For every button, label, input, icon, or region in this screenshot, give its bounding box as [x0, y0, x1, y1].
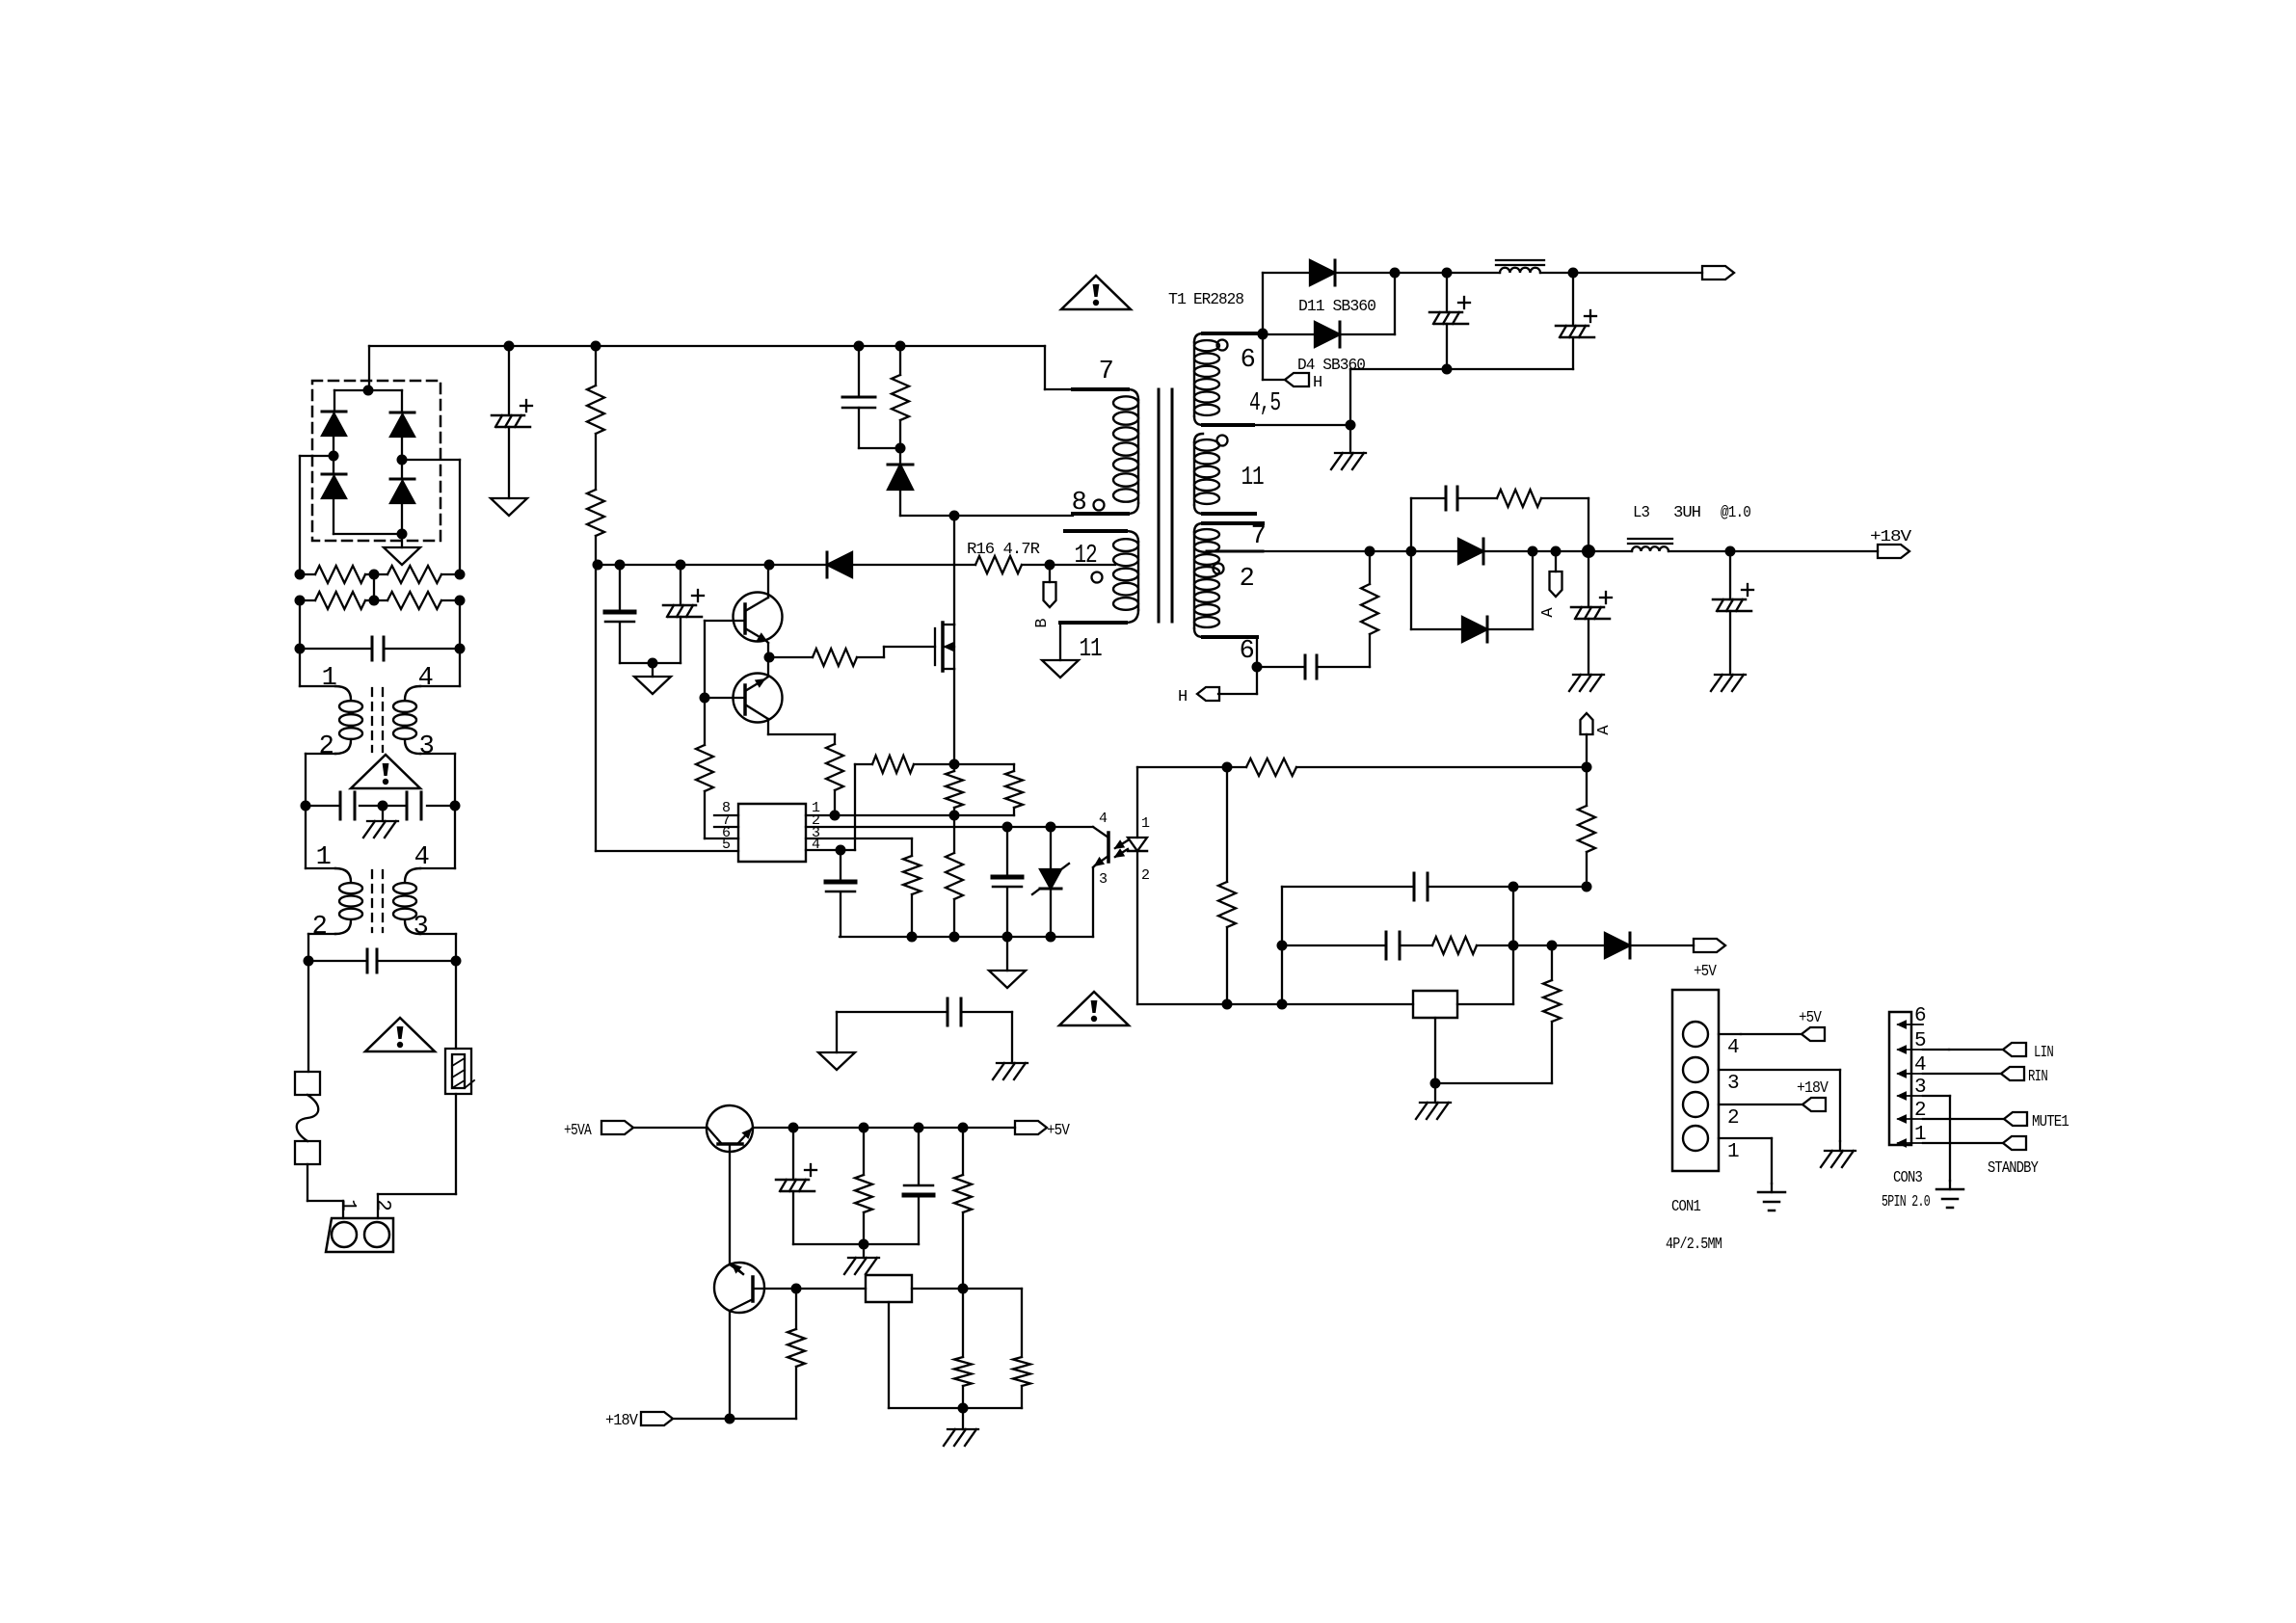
svg-text:11: 11 — [1080, 635, 1102, 664]
svg-text:+18V: +18V — [1870, 528, 1912, 546]
svg-text:H: H — [1178, 688, 1187, 706]
svg-text:1: 1 — [1141, 815, 1150, 832]
svg-text:2: 2 — [371, 1199, 393, 1211]
svg-text:4: 4 — [418, 664, 433, 693]
svg-text:STANDBY: STANDBY — [1988, 1159, 2039, 1178]
svg-text:4,5: 4,5 — [1249, 389, 1280, 418]
svg-text:ER2828: ER2828 — [1193, 291, 1244, 309]
svg-text:1: 1 — [316, 843, 331, 872]
svg-text:6: 6 — [1240, 637, 1254, 666]
svg-text:3: 3 — [1099, 871, 1108, 888]
svg-text:@1.0: @1.0 — [1721, 504, 1751, 522]
svg-text:1: 1 — [322, 664, 336, 693]
svg-text:2: 2 — [1141, 867, 1149, 884]
svg-text:MUTE1: MUTE1 — [2032, 1113, 2069, 1131]
svg-text:11: 11 — [1241, 464, 1264, 492]
svg-text:+5VA: +5VA — [564, 1122, 592, 1140]
svg-text:12: 12 — [1075, 542, 1097, 571]
svg-text:CON3: CON3 — [1893, 1169, 1923, 1187]
svg-text:D11 SB360: D11 SB360 — [1298, 298, 1376, 316]
svg-text:CON1: CON1 — [1671, 1198, 1701, 1216]
svg-text:B: B — [1033, 619, 1052, 628]
svg-text:4P/2.5MM: 4P/2.5MM — [1666, 1236, 1722, 1254]
svg-text:+18V: +18V — [605, 1412, 639, 1430]
svg-text:3: 3 — [1727, 1073, 1739, 1095]
svg-text:3UH: 3UH — [1673, 504, 1700, 522]
svg-text:+5V: +5V — [1047, 1122, 1070, 1140]
svg-text:L3: L3 — [1633, 504, 1650, 522]
svg-text:T1: T1 — [1168, 291, 1187, 309]
svg-text:H: H — [1313, 374, 1322, 392]
svg-text:5: 5 — [722, 837, 731, 853]
svg-text:+18V: +18V — [1797, 1079, 1829, 1098]
svg-text:LIN: LIN — [2034, 1044, 2053, 1062]
svg-text:2: 2 — [312, 913, 327, 942]
svg-text:RIN: RIN — [2028, 1068, 2047, 1086]
svg-text:2: 2 — [1240, 565, 1254, 594]
svg-text:7: 7 — [1099, 358, 1113, 386]
svg-text:R16 4.7R: R16 4.7R — [967, 541, 1040, 559]
svg-text:6: 6 — [1914, 1005, 1926, 1027]
svg-text:6: 6 — [1241, 346, 1255, 375]
svg-text:8: 8 — [1072, 489, 1086, 518]
svg-text:4: 4 — [1099, 811, 1108, 827]
svg-text:3: 3 — [414, 913, 428, 942]
svg-text:1: 1 — [1727, 1141, 1739, 1163]
svg-text:4: 4 — [414, 843, 429, 872]
svg-text:4: 4 — [1727, 1037, 1739, 1059]
svg-text:7: 7 — [1251, 522, 1266, 551]
svg-text:3: 3 — [419, 732, 434, 761]
svg-text:+5V: +5V — [1799, 1009, 1822, 1027]
svg-text:2: 2 — [1727, 1107, 1739, 1130]
svg-text:+5V: +5V — [1694, 963, 1717, 981]
svg-text:2: 2 — [319, 732, 334, 761]
svg-text:5PIN 2.0: 5PIN 2.0 — [1882, 1193, 1931, 1211]
svg-text:1: 1 — [336, 1199, 359, 1211]
